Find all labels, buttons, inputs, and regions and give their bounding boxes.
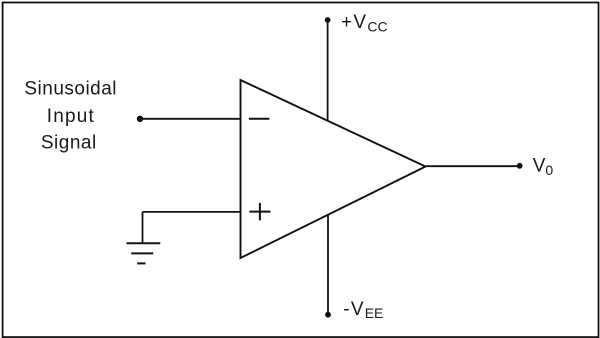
label "Sinusoidal Input Signal" <box>24 79 117 154</box>
op-amp non-inverting input (+) marker <box>249 203 270 221</box>
node V0 <box>517 163 523 169</box>
svg-text:Input: Input <box>47 106 95 127</box>
wire: +VCC supply to op-amp <box>327 20 329 121</box>
wire: input signal to op-amp inverting input <box>140 118 241 120</box>
ground <box>127 243 161 263</box>
svg-text:Signal: Signal <box>41 133 97 154</box>
wire: op-amp to -VEE supply <box>327 215 329 315</box>
wire: op-amp output <box>426 165 520 167</box>
op-amp <box>241 80 426 258</box>
svg-text:Sinusoidal: Sinusoidal <box>24 79 117 100</box>
node +VCC <box>325 17 331 23</box>
op-amp inverting input (-) marker <box>249 118 270 120</box>
node: sinusoidal input terminal <box>137 116 143 122</box>
wire: non-inverting input to ground <box>143 212 241 243</box>
node -VEE <box>325 312 331 318</box>
